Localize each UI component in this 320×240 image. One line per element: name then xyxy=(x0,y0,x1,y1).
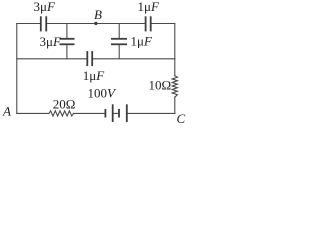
svg-text:100V: 100V xyxy=(88,86,118,101)
svg-text:1μF: 1μF xyxy=(83,68,105,83)
svg-text:B: B xyxy=(94,7,102,22)
svg-text:3μF: 3μF xyxy=(34,0,56,14)
svg-text:20Ω: 20Ω xyxy=(53,96,76,111)
svg-text:3μF: 3μF xyxy=(40,34,62,49)
svg-text:1μF: 1μF xyxy=(131,34,153,49)
svg-text:1μF: 1μF xyxy=(138,0,160,14)
svg-text:A: A xyxy=(2,103,11,118)
svg-text:C: C xyxy=(177,111,186,126)
svg-text:10Ω: 10Ω xyxy=(149,77,172,92)
